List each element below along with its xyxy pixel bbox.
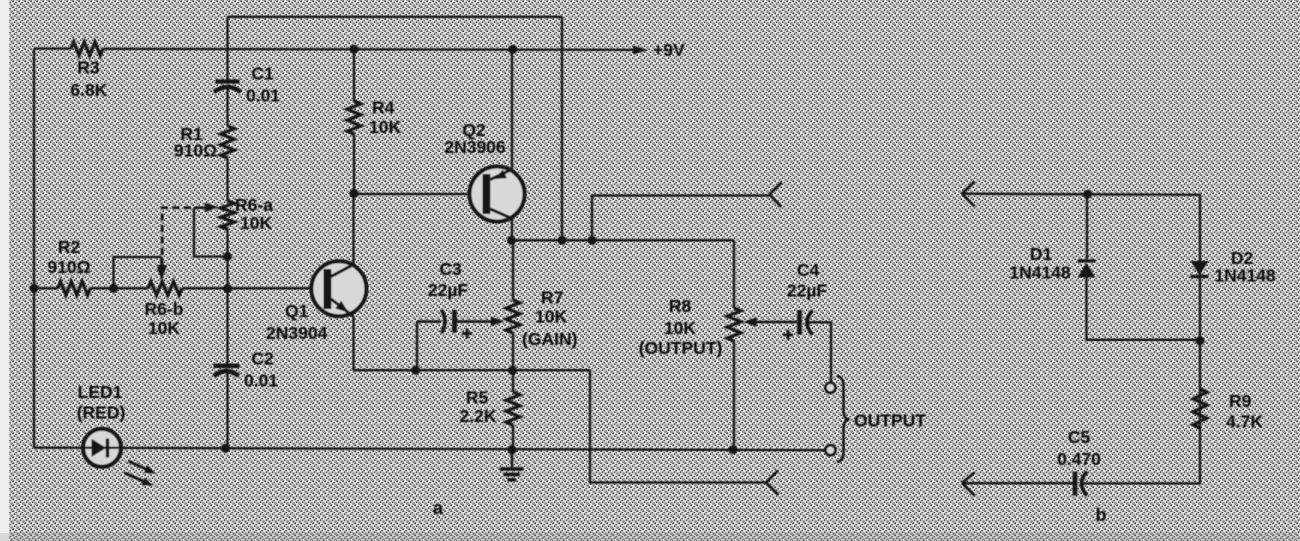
wire C1 to R1: [226, 87, 228, 126]
junction R2 R6-b: [109, 284, 118, 293]
svg-text:10K: 10K: [240, 213, 272, 233]
junction output tap row: [588, 236, 597, 245]
resistor R9: [1193, 389, 1263, 432]
wire b bottom left: [962, 482, 1073, 484]
junction Q1 collector node: [350, 189, 359, 198]
svg-text:2.2K: 2.2K: [460, 406, 497, 426]
wire D1 to loop: [1087, 278, 1201, 340]
svg-text:R2: R2: [58, 237, 81, 257]
wire Q1 collector: [352, 194, 354, 265]
wire +9V rail left segment: [34, 47, 71, 49]
junction R4 top: [350, 45, 359, 54]
output terminal lower: [825, 445, 835, 455]
svg-text:1N4148: 1N4148: [1214, 266, 1276, 286]
resistor R3: [70, 42, 107, 100]
svg-text:R4: R4: [372, 98, 395, 118]
svg-text:910Ω: 910Ω: [174, 141, 217, 161]
svg-text:(OUTPUT): (OUTPUT): [639, 338, 723, 358]
svg-text:C3: C3: [439, 259, 462, 279]
svg-text:D1: D1: [1030, 244, 1053, 264]
svg-text:22µF: 22µF: [428, 280, 469, 300]
wire Q1 emitter: [352, 317, 354, 371]
svg-text:LED1: LED1: [78, 382, 123, 402]
wire R7 top: [512, 240, 514, 300]
wire R6-a wiper tie: [194, 208, 228, 257]
svg-text:C2: C2: [251, 348, 274, 368]
svg-text:R3: R3: [77, 58, 100, 78]
svg-text:R9: R9: [1229, 391, 1252, 411]
capacitor C4: [744, 260, 828, 340]
svg-text:0.01: 0.01: [246, 86, 280, 106]
svg-text:6.8K: 6.8K: [70, 80, 107, 100]
output brace and label: [837, 376, 926, 462]
junction C2 row: [221, 444, 230, 453]
wire C3 drop: [416, 322, 418, 371]
wire C2 to LED row: [226, 371, 228, 448]
wire b top line: [962, 194, 1201, 195]
junction base row: [223, 284, 232, 293]
wire R6-a to row: [226, 229, 228, 288]
LED LED1: [77, 382, 126, 467]
wire R2 to R6-b: [90, 287, 148, 289]
capacitor C5: [1057, 427, 1101, 496]
open chevron upper (to b): [770, 182, 782, 207]
potentiometer R6-b: [145, 257, 184, 338]
svg-text:a: a: [433, 498, 444, 518]
svg-text:Q1: Q1: [285, 301, 309, 321]
output terminal upper: [825, 383, 835, 393]
ground: [500, 450, 524, 480]
wire R4 top: [353, 49, 355, 101]
wire Q2 collector: [511, 219, 513, 241]
wire base row left: [34, 287, 58, 289]
junction left rail row: [30, 284, 39, 293]
wire C4 to terminal: [807, 322, 831, 381]
svg-text:+9V: +9V: [653, 40, 685, 60]
transistor Q2: [444, 120, 524, 222]
resistor R1: [174, 124, 234, 161]
wire emitter row: [354, 369, 591, 371]
wire feedback left drop: [226, 17, 228, 82]
diode D1: [1009, 244, 1095, 283]
wire D1 branch: [1086, 194, 1088, 259]
svg-text:10K: 10K: [535, 307, 567, 327]
label a: [433, 498, 444, 518]
wire R1 to R6-a: [226, 158, 228, 201]
wire Q2 emitter to rail: [511, 49, 513, 169]
svg-text:C1: C1: [251, 64, 274, 84]
svg-text:C4: C4: [797, 260, 820, 280]
junction Q2 emitter rail: [508, 45, 517, 54]
wire R8 bottom: [733, 341, 735, 450]
svg-text:R6-b: R6-b: [145, 299, 184, 319]
svg-text:OUTPUT: OUTPUT: [854, 410, 926, 430]
junction Q2 collector row: [507, 236, 516, 245]
open arrow b upper: [962, 182, 975, 207]
transistor Q1: [266, 261, 366, 343]
svg-text:10K: 10K: [664, 318, 696, 338]
potentiometer R7: [506, 288, 577, 350]
svg-text:0.01: 0.01: [244, 371, 278, 391]
wire collector row: [512, 239, 735, 241]
wire R6-b to Q1 base: [182, 287, 324, 289]
resistor R5: [460, 388, 520, 426]
svg-text:4.7K: 4.7K: [1226, 412, 1263, 432]
wire chevron branch lower: [590, 370, 766, 482]
svg-text:(GAIN): (GAIN): [522, 329, 577, 349]
junction D2 loop: [1196, 336, 1205, 345]
dashed gang link R6: [157, 208, 193, 278]
open chevron lower (to b): [766, 471, 778, 495]
junction b top: [1083, 190, 1092, 199]
wire chevron branch upper: [592, 196, 770, 241]
resistor R4: [347, 98, 401, 138]
svg-text:910Ω: 910Ω: [47, 257, 90, 277]
diode D2: [1191, 248, 1276, 286]
svg-text:R7: R7: [541, 288, 563, 308]
junction ground row: [508, 445, 517, 454]
wire x227 row to C2: [226, 288, 228, 366]
svg-text:1N4148: 1N4148: [1009, 263, 1071, 283]
junction feedback row: [558, 236, 567, 245]
junction R6-a bottom: [223, 252, 232, 261]
svg-text:R6-a: R6-a: [235, 195, 273, 215]
junction R5 top: [508, 366, 517, 375]
capacitor C3: [417, 259, 504, 339]
svg-text:10K: 10K: [148, 318, 180, 338]
LED light arrows: [124, 461, 156, 486]
svg-text:2N3906: 2N3906: [444, 137, 506, 157]
wire base line to Q2: [354, 193, 483, 195]
wire b right vertical: [1199, 195, 1201, 484]
wire left rail vertical: [33, 49, 35, 448]
wire R6-b wiper tie: [114, 257, 162, 288]
svg-text:22µF: 22µF: [787, 281, 828, 301]
svg-text:C5: C5: [1068, 427, 1091, 447]
wire top feedback rail: [228, 16, 563, 18]
wire R7 bottom: [512, 333, 514, 370]
potentiometer R6-a: [194, 195, 273, 233]
capacitor C1: [214, 64, 280, 106]
svg-text:R8: R8: [669, 296, 692, 316]
junction R8 bottom: [729, 445, 738, 454]
resistor R2: [47, 237, 90, 295]
+9V supply arrow and label: [633, 40, 685, 60]
wire feedback right drop: [561, 17, 563, 241]
wire bottom row: [34, 448, 831, 451]
svg-text:2N3904: 2N3904: [266, 323, 328, 343]
label b: [1096, 505, 1107, 525]
wire +9V rail: [103, 49, 635, 50]
junction C3 emitter row: [411, 366, 420, 375]
wire R8 top: [733, 240, 735, 308]
svg-text:(RED): (RED): [77, 403, 126, 423]
wire R5 bottom: [512, 425, 514, 450]
svg-text:0.470: 0.470: [1057, 449, 1101, 469]
svg-text:b: b: [1096, 505, 1107, 525]
svg-text:10K: 10K: [369, 117, 401, 137]
wire b bottom right: [1082, 482, 1202, 484]
capacitor C2: [214, 348, 279, 390]
svg-text:R5: R5: [466, 388, 489, 408]
wire R4 to node: [353, 134, 355, 194]
open arrow b lower: [962, 473, 975, 496]
wire R5 top: [512, 370, 514, 392]
potentiometer R8: [639, 296, 741, 358]
